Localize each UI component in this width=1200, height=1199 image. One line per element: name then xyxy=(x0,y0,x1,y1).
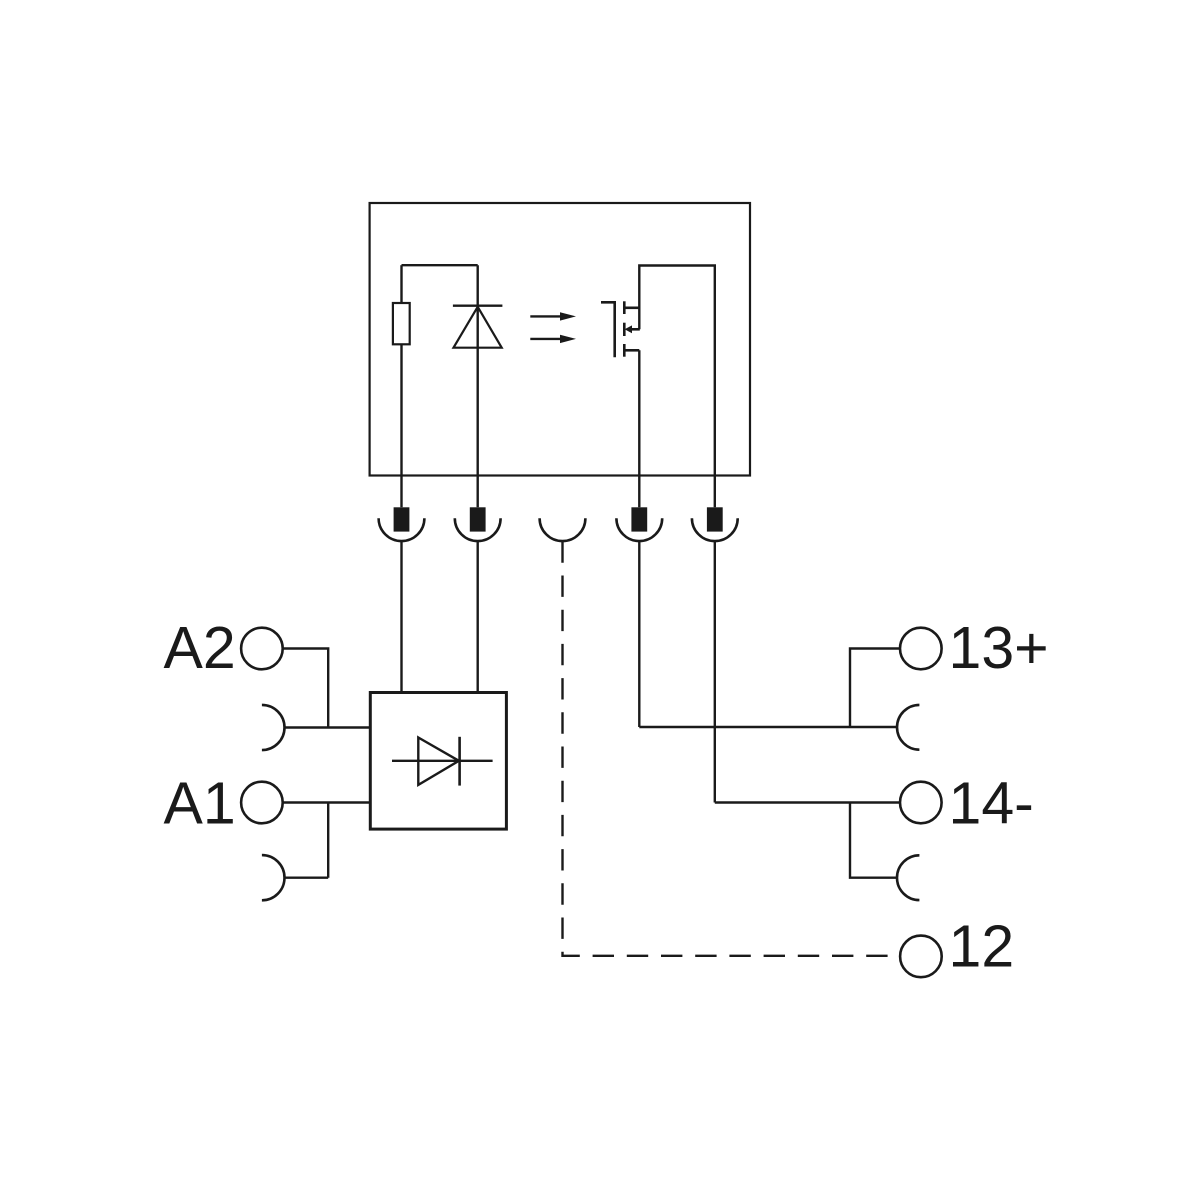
svg-text:13+: 13+ xyxy=(949,615,1049,681)
svg-text:14-: 14- xyxy=(949,771,1034,837)
svg-text:A2: A2 xyxy=(164,615,236,681)
svg-text:12: 12 xyxy=(949,913,1015,979)
svg-text:A1: A1 xyxy=(164,771,236,837)
